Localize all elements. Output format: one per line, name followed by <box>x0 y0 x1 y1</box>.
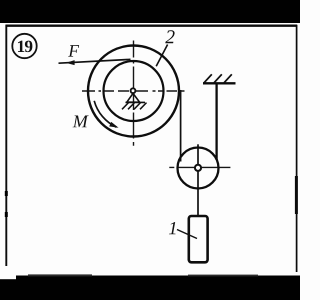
problem number circle 19 <box>12 34 36 58</box>
drum vertical center line <box>133 41 135 146</box>
moment label M <box>73 116 89 128</box>
ceiling bar <box>203 82 236 84</box>
left rope from drum to pulley <box>180 90 182 162</box>
right rope from ceiling to pulley <box>215 83 217 160</box>
moment arc M <box>94 101 116 127</box>
bottom bar edge smudge <box>0 276 16 280</box>
pulley circle <box>178 148 219 189</box>
ceiling hatch 1 <box>204 74 212 83</box>
frame top border <box>6 25 298 27</box>
drum inner circle <box>104 61 164 121</box>
label 1 <box>169 222 176 234</box>
frame left border <box>5 25 7 266</box>
drum outer circle <box>88 46 179 137</box>
top black bar <box>0 0 300 23</box>
frame right border <box>296 25 298 272</box>
pin support triangle <box>127 93 140 102</box>
ceiling hatch 2 <box>214 74 222 83</box>
force label F <box>68 45 79 56</box>
drum horizontal center line <box>82 90 185 92</box>
pin support base line <box>126 101 146 103</box>
force line <box>59 59 131 63</box>
pulley horizontal center line <box>169 166 230 168</box>
ceiling hatch 3 <box>224 74 232 83</box>
leader line for 1 <box>177 230 197 239</box>
moment arrowhead <box>109 122 118 128</box>
weight block 1 <box>189 216 208 262</box>
leader line for 2 <box>156 45 167 67</box>
bottom black bar <box>0 276 300 300</box>
label 2 <box>165 30 174 43</box>
pulley vertical line / rope to weight <box>197 144 199 216</box>
pin support hatching <box>122 103 129 110</box>
pulley pin <box>195 165 201 171</box>
pin circle <box>131 88 136 93</box>
force arrowhead (pointing left) <box>66 60 75 65</box>
